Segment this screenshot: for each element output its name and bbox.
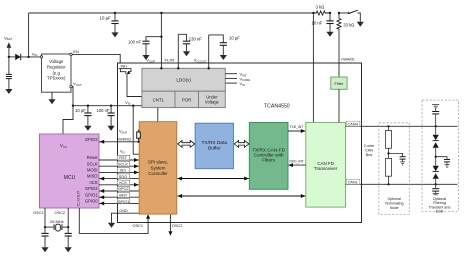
svg-text:SPI slave,: SPI slave, [148,159,168,164]
ground [5,89,12,94]
svg-text:CLKOUT: CLKOUT [76,190,81,206]
ground regulator [48,92,55,104]
ground [111,32,118,37]
ground [108,126,115,131]
svg-text:100 nF: 100 nF [97,108,110,113]
svg-text:RXD_INT: RXD_INT [290,159,304,163]
wire SPI-transceiver double arrow [177,194,305,198]
wire WAKE net [338,31,340,77]
wire CANH [346,121,458,126]
capacitor C12 mid filter [436,157,450,168]
filter block [331,77,347,89]
pin FLTR wire [165,34,180,69]
svg-text:LDO(x): LDO(x) [176,77,191,82]
wire RST [99,155,139,162]
voltage regulator U1 [32,49,82,92]
ground [84,126,91,131]
optional filtering dashed box [422,100,458,214]
hollow arrow buffer-controller [234,141,249,148]
svg-text:Bus: Bus [366,153,373,157]
svg-text:CANL: CANL [348,180,358,184]
svg-text:VIO: VIO [125,101,130,106]
svg-text:Buffer: Buffer [208,145,221,151]
svg-text:Terminating: Terminating [385,202,404,206]
svg-text:POR: POR [182,97,192,102]
svg-text:Filter: Filter [335,81,345,86]
svg-text:TX/RX Data: TX/RX Data [202,140,228,146]
svg-text:10 µF: 10 µF [100,15,112,20]
svg-text:MOSI: MOSI [87,168,97,173]
svg-text:GPIO1: GPIO1 [85,192,98,197]
capacitor C9 xtal right [65,227,72,247]
resistor R4 term upper [386,125,392,158]
ground SPI [108,223,115,228]
svg-text:GPIO2: GPIO2 [85,186,98,191]
wire VIN-rail riser [28,13,30,57]
svg-text:CAN: CAN [365,149,373,153]
CNTL block [142,91,175,107]
svg-text:130 nF: 130 nF [189,36,202,41]
switch SW1 [339,10,360,22]
ground [65,247,72,252]
wire VOUT to VIO rail [71,87,74,106]
svg-text:OSC1: OSC1 [133,223,144,228]
svg-text:10 µF: 10 µF [75,108,86,113]
wire VIO to SPI pin [132,105,139,155]
optional terminating node dashed box [379,123,409,214]
wire nINT [99,193,139,200]
svg-text:3 kΩ: 3 kΩ [316,5,325,10]
svg-text:Node: Node [390,206,399,210]
svg-text:TCAN4550: TCAN4550 [264,103,290,109]
crystal Y1 [44,208,69,231]
svg-text:GPIO1: GPIO1 [118,200,130,204]
node 2-wire CAN bus label [364,144,374,157]
pin OSC2 wire [168,214,182,236]
diode D1 [8,54,41,60]
capacitor C11 CANH filter [432,105,439,128]
LDO output stub VCORE [225,76,250,82]
svg-text:Controller: Controller [148,171,168,176]
svg-text:nWKRQ: nWKRQ [117,138,131,142]
svg-text:2-wire: 2-wire [364,144,374,148]
capacitor C2 10uF VIO [75,105,92,126]
under-voltage block [199,91,226,107]
wire CNTL to SPI block [157,108,159,122]
LDO output stub VIO [225,81,246,87]
wire filter to transceiver [338,89,340,122]
capacitor C3 100nF VIO [97,105,115,126]
svg-text:nCS: nCS [119,181,127,185]
svg-text:33 kΩ: 33 kΩ [343,22,354,27]
wire VIO rail [72,105,142,107]
wire RXD_INT [288,159,305,167]
svg-text:VBAT: VBAT [4,35,12,41]
TXRX data buffer block [195,123,233,169]
svg-text:Regulator: Regulator [47,64,66,69]
svg-text:SCLK: SCLK [87,161,98,166]
svg-text:VCC: VCC [60,143,68,149]
pin VCCOUT wire [194,35,210,70]
svg-text:CNTL: CNTL [153,97,165,102]
SPI slave system controller block [139,122,177,214]
svg-text:ESD: ESD [436,210,444,214]
capacitor C8 xtal left [41,227,48,247]
svg-text:CANH: CANH [348,122,359,126]
wire INH to CNTL [127,74,142,97]
TVS diode pair lower [433,157,439,186]
svg-text:MCU: MCU [64,175,76,181]
svg-text:TXD_INT: TXD_INT [290,125,304,129]
resistor R1 3k [313,5,330,15]
wire SDI [99,168,139,175]
svg-text:nINT: nINT [119,193,128,197]
wire TXD_INT [288,125,305,133]
ground [326,32,333,37]
wire SCLK [99,162,139,169]
wire GPO2 [99,186,139,193]
svg-text:Transceiver: Transceiver [314,166,338,171]
LDO block [142,68,225,91]
ground [142,55,149,60]
node VBAT [4,35,12,57]
svg-text:VIO: VIO [240,81,246,87]
svg-text:VSUP: VSUP [146,58,155,64]
capacitor C13 CANL filter [432,184,439,195]
svg-text:VIN: VIN [32,51,38,57]
svg-text:Voltage: Voltage [205,100,220,105]
resistor R2 33k [337,12,354,31]
svg-text:FLTR: FLTR [165,58,175,63]
svg-text:GPIO3: GPIO3 [85,137,98,142]
svg-text:OSC2: OSC2 [55,210,66,215]
ground [220,55,227,60]
INH pin symbol [119,65,131,75]
wire VSUP to transceiver [312,12,314,123]
capacitor C4 100nF VSUP [128,37,161,55]
svg-text:SCLK: SCLK [118,162,128,166]
hollow arrow SPI-buffer [178,141,195,148]
ground [41,247,48,252]
TVS diode pair upper [433,126,439,157]
TCAN4550 chip outline [118,63,362,223]
svg-text:Optional: Optional [388,197,402,201]
svg-text:INH: INH [121,65,128,69]
svg-text:OSC1: OSC1 [33,210,44,215]
svg-text:RST: RST [119,156,127,160]
LDO output stub VINT [225,72,247,78]
wire CANL [346,179,458,184]
capacitor C5 130nF FLTR [178,34,202,51]
svg-text:SDO: SDO [119,175,127,179]
svg-text:GPO2: GPO2 [118,187,129,191]
MCU block [33,134,99,215]
wire nWKRQ [99,140,139,144]
svg-text:CAN FD: CAN FD [317,161,335,166]
wire SPI-controller double arrow [177,177,248,181]
svg-text:10 µF: 10 µF [229,36,240,41]
resistor R3 nWKRQ pullup [119,130,140,143]
wire EN to INH [72,54,120,63]
capacitor C7 10nF WAKE [312,12,334,32]
capacitor C10 term [389,153,406,165]
ground [183,51,190,56]
svg-text:VSUP: VSUP [119,130,127,135]
POR block [175,91,199,107]
svg-text:GPIO0: GPIO0 [85,199,98,204]
svg-text:Reset: Reset [87,155,99,160]
svg-text:MISO: MISO [87,174,97,179]
svg-text:26 MHz: 26 MHz [50,219,64,224]
wire GPIO1 [99,199,139,206]
svg-text:nWAKE: nWAKE [341,57,355,62]
svg-text:TPSxxxx): TPSxxxx) [47,76,66,81]
svg-text:nCS: nCS [90,180,98,185]
svg-text:VCCOUT: VCCOUT [194,58,207,64]
svg-text:SDI: SDI [120,169,126,173]
svg-text:GND: GND [119,209,128,213]
pin label nWAKE [341,57,355,62]
ground switch [357,22,364,27]
svg-text:Filters: Filters [262,158,275,163]
wire CLKOUT to OSC1 [79,208,150,233]
wire VCC branch to MCU [63,106,73,134]
resistor R5 term lower [386,158,392,185]
pin VSUP wire [146,12,162,70]
capacitor C6 10uF VCCOUT [209,35,241,55]
svg-text:100 nF: 100 nF [128,39,141,44]
pin GND wire [112,209,140,223]
wire nCS [99,180,139,187]
capacitor C1 10uF rail [100,12,119,33]
svg-text:System: System [150,165,165,170]
svg-text:VIO: VIO [120,150,125,155]
wire SDO [99,174,139,181]
svg-text:10 nF: 10 nF [312,20,323,25]
wire top VSUP rail [29,12,316,14]
svg-text:VOUT: VOUT [73,81,82,87]
CAN-FD controller block [249,123,288,190]
CAN-FD transceiver block [306,122,346,207]
capacitor C-vbat [6,57,12,89]
svg-text:OSC2: OSC2 [172,223,183,228]
svg-text:EN: EN [73,49,79,54]
